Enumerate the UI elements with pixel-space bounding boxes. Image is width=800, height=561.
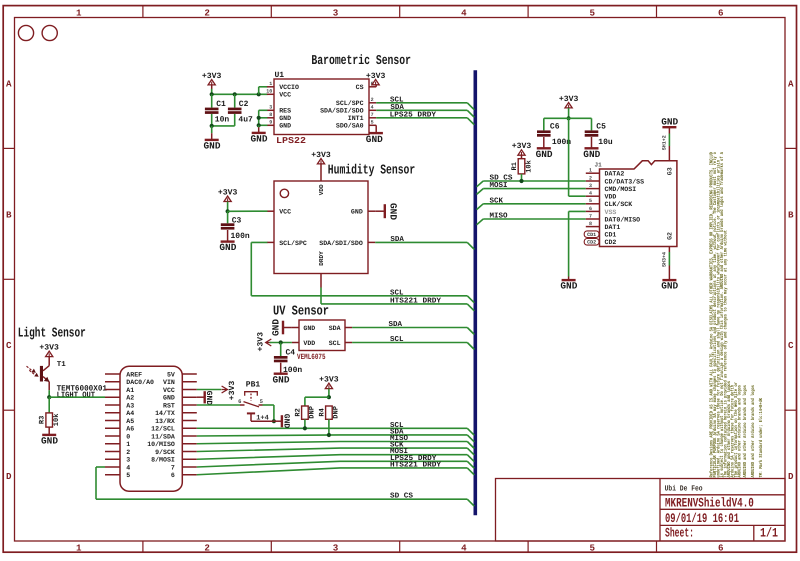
junction <box>519 179 523 183</box>
bus entry LPS25 DRDY <box>467 118 474 125</box>
svg-text:1/1: 1/1 <box>760 526 778 541</box>
bus entry SCL <box>467 428 474 435</box>
svg-text:11/SDA: 11/SDA <box>151 433 175 440</box>
J1 left pin stubs <box>586 172 600 174</box>
svg-text:SDA: SDA <box>390 235 404 244</box>
svg-text:GND: GND <box>303 325 315 332</box>
svg-text:8: 8 <box>269 112 272 118</box>
svg-text:CS: CS <box>356 84 364 91</box>
resistor R4 body <box>326 406 333 419</box>
svg-text:T1: T1 <box>57 361 67 369</box>
wire SD CS <box>483 180 586 182</box>
wire +3V3 down <box>328 389 330 398</box>
svg-text:CMD/MOSI: CMD/MOSI <box>605 186 637 193</box>
wire R2 to SCL <box>304 419 306 428</box>
ground (PB1, rotated) <box>274 420 281 422</box>
capacitor C3 <box>227 211 229 223</box>
wire SDA <box>197 435 468 436</box>
svg-text:6: 6 <box>718 542 724 553</box>
svg-text:HTS221 DRDY: HTS221 DRDY <box>390 296 442 305</box>
svg-text:4: 4 <box>461 542 467 553</box>
capacitor C5 plates <box>585 130 599 133</box>
wire MISO <box>197 442 468 444</box>
capacitor C6 <box>543 118 545 130</box>
svg-text:R4: R4 <box>318 408 326 416</box>
svg-text:R2: R2 <box>294 408 302 416</box>
junction <box>257 116 261 120</box>
svg-text:A4: A4 <box>126 410 134 417</box>
svg-text:SCK: SCK <box>490 196 504 205</box>
svg-text:R1: R1 <box>511 162 519 170</box>
svg-text:SDA/SDI/SDO: SDA/SDI/SDO <box>319 240 363 247</box>
registration hole right <box>42 25 57 40</box>
svg-text:4: 4 <box>371 105 374 111</box>
bus exit SCK <box>477 204 484 210</box>
svg-text:CD1: CD1 <box>587 232 596 238</box>
wire LPS25 DRDY <box>197 461 468 467</box>
svg-text:CD2: CD2 <box>587 240 596 246</box>
svg-text:GND: GND <box>273 374 290 385</box>
svg-text:DRDY: DRDY <box>318 251 325 266</box>
svg-text:2: 2 <box>589 175 592 181</box>
svg-text:1: 1 <box>269 81 272 87</box>
svg-text:VDD: VDD <box>605 194 617 201</box>
wire VCCIO branch <box>258 87 260 95</box>
svg-text:GND: GND <box>583 149 600 160</box>
net flag CD1 <box>584 231 599 238</box>
svg-text:5: 5 <box>590 7 596 18</box>
svg-text:C6: C6 <box>550 123 560 132</box>
svg-text:A5: A5 <box>126 418 134 425</box>
junction <box>257 92 261 96</box>
svg-text:9/SCK: 9/SCK <box>155 449 175 456</box>
wire pullup rail <box>305 396 329 398</box>
wire MISO <box>483 218 586 220</box>
svg-text:+3V3: +3V3 <box>218 189 238 198</box>
svg-text:RES: RES <box>279 108 291 115</box>
svg-text:3: 3 <box>269 105 272 111</box>
junction <box>226 209 230 213</box>
svg-text:GND: GND <box>204 141 221 152</box>
svg-text:MOSI: MOSI <box>490 181 508 190</box>
ground (SD VSS) <box>568 277 570 281</box>
svg-text:4u7: 4u7 <box>238 115 253 124</box>
+3V3 supply <box>325 383 332 388</box>
wire SCL/SPC to bus <box>251 241 267 243</box>
bus entry SCL <box>467 103 474 110</box>
svg-text:GND: GND <box>536 149 553 160</box>
svg-text:GND: GND <box>204 391 213 406</box>
svg-text:ARDUINO and other Arduino bran: ARDUINO and other Arduino brands and log… <box>742 385 748 478</box>
transistor T1 TEMT6000X01 <box>40 366 43 382</box>
svg-text:6: 6 <box>718 7 724 18</box>
op-amp U1 LPS22 box <box>274 79 369 135</box>
svg-text:2: 2 <box>371 97 374 103</box>
svg-text:A: A <box>6 79 12 90</box>
MKR right pin stubs <box>182 373 197 375</box>
svg-text:6: 6 <box>238 398 241 405</box>
wire emitter down <box>48 390 50 397</box>
svg-text:MKRENVShieldV4.0: MKRENVShieldV4.0 <box>665 495 754 510</box>
svg-text:10u: 10u <box>598 138 613 147</box>
bus (navy vertical) <box>473 70 477 515</box>
svg-text:VDD: VDD <box>318 184 325 195</box>
svg-text:10k: 10k <box>52 414 61 427</box>
svg-text:A: A <box>788 79 794 90</box>
svg-text:1: 1 <box>76 7 82 18</box>
bus exit MOSI <box>477 189 484 195</box>
svg-text:C3: C3 <box>232 216 242 225</box>
svg-text:C: C <box>6 340 12 351</box>
svg-text:DAT0/MISO: DAT0/MISO <box>605 216 641 223</box>
capacitor C1 plates <box>205 108 219 111</box>
svg-text:A1: A1 <box>126 387 134 394</box>
PB1 lever <box>244 402 260 407</box>
bus entry SDA (humidity) <box>467 242 474 249</box>
svg-text:GND: GND <box>271 319 282 336</box>
svg-text:GND: GND <box>279 123 291 130</box>
svg-text:C5: C5 <box>596 123 606 132</box>
wire rail to VCC pin 10 <box>212 93 268 95</box>
MKR left pin stubs <box>105 373 120 375</box>
wire +3V3 to VDD <box>270 342 292 344</box>
wire +3V3 stub <box>211 85 213 94</box>
svg-text:+3V3: +3V3 <box>39 344 59 353</box>
wire HTS221 DRDY <box>197 468 468 475</box>
junction <box>233 92 237 96</box>
capacitor C3 plates <box>221 223 235 226</box>
bus entry MISO <box>467 442 474 449</box>
wire LPS25 DRDY <box>376 117 467 119</box>
light arrows <box>27 366 35 374</box>
capacitor C4 <box>280 343 282 357</box>
svg-text:C1: C1 <box>216 100 226 109</box>
svg-text:8: 8 <box>589 221 592 227</box>
wire +3V3 to rail <box>211 89 213 95</box>
junction <box>257 123 261 127</box>
wire LIGHT OUT to A2 <box>49 396 105 398</box>
wire PB1 pin5 to 1+4 <box>263 404 274 406</box>
junction <box>210 124 214 128</box>
svg-text:7: 7 <box>171 464 175 471</box>
wire +3V3 to SD VDD <box>568 118 570 196</box>
svg-text:1: 1 <box>76 542 82 553</box>
+3V3 supply <box>46 351 53 356</box>
svg-text:LPS25 DRDY: LPS25 DRDY <box>390 110 437 119</box>
svg-text:SDO/SA0: SDO/SA0 <box>336 123 364 130</box>
bus entry SDA <box>467 110 474 117</box>
svg-text:MISO: MISO <box>490 212 509 221</box>
ground (U3 GND pin, rotated) <box>282 321 284 335</box>
connector J1 SD card socket outline <box>600 161 677 247</box>
capacitor C1 <box>211 94 213 107</box>
svg-text:RST: RST <box>163 402 175 409</box>
IC U3 VEML6075 box <box>299 320 345 351</box>
svg-text:+3V3: +3V3 <box>512 142 532 151</box>
wire MOSI <box>197 455 468 460</box>
svg-text:10/MISO: 10/MISO <box>147 441 175 448</box>
svg-text:GND: GND <box>163 395 175 402</box>
svg-text:AREF: AREF <box>126 371 142 378</box>
registration hole left <box>18 25 33 40</box>
svg-text:+3V3: +3V3 <box>256 332 265 352</box>
bus entry LPS25 DRDY <box>467 461 474 468</box>
wire VCC <box>197 389 222 391</box>
svg-text:SDA: SDA <box>329 325 341 332</box>
svg-text:UV Sensor: UV Sensor <box>273 304 329 319</box>
svg-text:GND: GND <box>281 414 290 429</box>
capacitor C5 <box>591 118 593 130</box>
svg-text:10k: 10k <box>525 160 534 173</box>
svg-text:A3: A3 <box>126 402 134 409</box>
svg-text:CLK/SCK: CLK/SCK <box>605 201 633 208</box>
U3 pin stubs <box>292 327 299 329</box>
svg-text:SDA: SDA <box>389 320 403 329</box>
svg-text:9: 9 <box>269 120 272 126</box>
svg-text:SH1+2: SH1+2 <box>662 135 668 150</box>
svg-text:5: 5 <box>126 472 130 479</box>
U2 pin-1 circle <box>280 189 288 197</box>
svg-text:+3V3: +3V3 <box>559 95 579 104</box>
svg-text:CD2: CD2 <box>605 239 617 246</box>
svg-text:+3V3: +3V3 <box>311 151 331 160</box>
PB1 lower contact 1+4 <box>247 412 255 414</box>
svg-text:B: B <box>788 209 794 220</box>
wire pins 3,8,9 to ground <box>259 109 268 111</box>
wire DRDY to bus <box>320 274 322 288</box>
ground (C3) <box>227 230 229 242</box>
capacitor C2 plates <box>228 108 242 111</box>
svg-text:VCCIO: VCCIO <box>279 84 299 91</box>
svg-text:GND: GND <box>366 134 383 145</box>
ground (humidity GND pin, rotated) <box>375 210 384 212</box>
ground (MKR GND pin, rotated) <box>197 396 204 398</box>
svg-text:+3V3: +3V3 <box>366 72 386 81</box>
svg-text:D: D <box>788 471 794 482</box>
svg-text:GND: GND <box>41 436 58 447</box>
svg-text:GND: GND <box>387 203 398 220</box>
svg-text:HTS221 DRDY: HTS221 DRDY <box>390 460 442 469</box>
svg-text:5: 5 <box>371 120 374 126</box>
svg-text:14/TX: 14/TX <box>155 410 175 417</box>
svg-text:Humidity Sensor: Humidity Sensor <box>328 164 415 179</box>
+3V3 supply <box>224 196 231 201</box>
svg-text:GND: GND <box>661 281 678 292</box>
svg-text:DAC0/A0: DAC0/A0 <box>126 379 154 386</box>
ground (G2) <box>668 266 670 281</box>
svg-text:INT1: INT1 <box>348 115 364 122</box>
svg-text:VEML6075: VEML6075 <box>297 353 326 362</box>
svg-text:LPS22: LPS22 <box>276 136 306 146</box>
+3V3 supply <box>565 103 572 108</box>
wire to VCC pin <box>228 210 268 212</box>
svg-text:GND: GND <box>279 115 291 122</box>
svg-text:SCL: SCL <box>329 340 341 347</box>
wire +3V3 to VCC node <box>227 202 229 212</box>
bus exit SD CS <box>477 181 484 187</box>
resistor R2 body <box>302 406 309 419</box>
svg-text:GND: GND <box>351 209 363 216</box>
svg-text:G3: G3 <box>667 167 674 175</box>
wire R4 to SDA <box>328 419 330 435</box>
svg-text:LIGHT OUT: LIGHT OUT <box>57 391 96 400</box>
svg-text:100n: 100n <box>231 232 250 241</box>
bus entry SCL (UV) <box>467 343 474 350</box>
svg-text:4: 4 <box>589 191 592 197</box>
svg-text:VSS: VSS <box>605 209 617 216</box>
ground (SDO/SA0) <box>375 125 377 133</box>
svg-text:B: B <box>6 209 12 220</box>
svg-text:SH3+4: SH3+4 <box>662 252 668 267</box>
svg-text:1: 1 <box>126 441 130 448</box>
svg-text:R3: R3 <box>39 416 47 424</box>
junction <box>272 419 276 423</box>
svg-text:SD CS: SD CS <box>390 492 413 501</box>
wire SCK <box>197 448 468 451</box>
svg-text:VCC: VCC <box>163 387 175 394</box>
PB1 contact stubs <box>240 404 245 406</box>
wire SCL <box>376 102 467 104</box>
svg-text:SCL: SCL <box>390 335 404 344</box>
bus entry HTS221 DRDY <box>467 304 474 311</box>
svg-text:GND: GND <box>219 242 236 253</box>
capacitor C4 plates <box>274 356 288 359</box>
wire C2 to C1 gnd node <box>212 125 235 127</box>
+3V3 supply (R1) <box>518 150 525 155</box>
ground (C5) <box>591 137 593 148</box>
svg-text:DAT1: DAT1 <box>605 224 621 231</box>
svg-text:GND: GND <box>560 281 577 292</box>
capacitor C6 plates <box>537 130 551 133</box>
svg-text:DATA2: DATA2 <box>605 171 625 178</box>
svg-text:Barometric Sensor: Barometric Sensor <box>311 54 411 69</box>
connector MKR (main board header) <box>120 366 182 491</box>
svg-text:VIN: VIN <box>163 379 175 386</box>
ground (R3) <box>48 427 50 435</box>
svg-text:SCL: SCL <box>390 288 404 297</box>
+3V3 supply <box>317 159 324 164</box>
svg-text:3: 3 <box>333 7 339 18</box>
svg-text:C4: C4 <box>286 348 296 357</box>
junction <box>327 395 331 399</box>
svg-text:CD/DAT3/SS: CD/DAT3/SS <box>605 178 645 185</box>
svg-text:5: 5 <box>589 198 592 204</box>
bus entry HTS221 DRDY <box>467 468 474 475</box>
svg-text:2: 2 <box>126 449 130 456</box>
svg-text:3: 3 <box>126 457 130 464</box>
svg-text:PB1: PB1 <box>246 381 261 390</box>
wire R1 to SD CS <box>521 174 523 181</box>
+3V3 supply <box>372 79 379 84</box>
svg-text:8/MOSI: 8/MOSI <box>151 457 175 464</box>
svg-text:G2: G2 <box>667 232 674 240</box>
bus entry SD CS <box>467 499 474 506</box>
svg-text:+3V3: +3V3 <box>319 376 339 385</box>
svg-text:U1: U1 <box>275 71 285 80</box>
svg-text:09/01/19 16:01: 09/01/19 16:01 <box>665 511 739 526</box>
svg-text:4: 4 <box>461 7 467 18</box>
svg-text:6: 6 <box>589 206 592 212</box>
wire SCL <box>197 427 468 429</box>
resistor R3 body <box>46 413 53 427</box>
wire SDA <box>352 327 467 329</box>
svg-text:GND: GND <box>661 116 678 127</box>
svg-text:10: 10 <box>266 89 272 95</box>
svg-text:SCL/SPC: SCL/SPC <box>279 240 307 247</box>
bus entry SDA (UV) <box>467 328 474 335</box>
svg-text:C2: C2 <box>239 100 249 109</box>
svg-text:4: 4 <box>126 464 130 471</box>
resistor R1 body <box>518 159 525 174</box>
wire SDA <box>375 241 467 243</box>
junction <box>303 426 307 430</box>
svg-text:10n: 10n <box>215 115 230 124</box>
svg-text:+3V3: +3V3 <box>202 72 222 81</box>
+3V3 supply (U3, arrow left) <box>266 339 272 346</box>
wire SCK <box>483 203 586 205</box>
U1 right pin stubs <box>369 86 376 88</box>
wire G2 shield <box>668 252 670 266</box>
svg-text:13/RX: 13/RX <box>155 418 175 425</box>
frame column ticks <box>142 6 144 18</box>
svg-text:12/SCL: 12/SCL <box>151 426 175 433</box>
wire C1 bottom <box>211 114 213 126</box>
svg-text:A6: A6 <box>126 426 134 433</box>
svg-text:TM: Mark Standard under; Elc:1: TM: Mark Standard under; Elc:14+B+dK <box>758 398 764 478</box>
wire MOSI <box>483 188 586 190</box>
svg-text:ARDUINO and other Arduino bran: ARDUINO and other Arduino brands and log… <box>737 385 743 478</box>
svg-text:5: 5 <box>590 542 596 553</box>
svg-text:6: 6 <box>171 472 175 479</box>
junction <box>47 395 51 399</box>
svg-text:Sheet:: Sheet: <box>665 526 694 541</box>
junction <box>567 116 571 120</box>
svg-text:SCL/SPC: SCL/SPC <box>336 100 364 107</box>
svg-text:D: D <box>6 471 12 482</box>
svg-text:VDD: VDD <box>303 340 315 347</box>
wire SDA <box>376 109 467 111</box>
U2 left pin stubs <box>267 210 274 212</box>
PB1 actuator bracket <box>245 392 258 396</box>
svg-text:0: 0 <box>126 433 130 440</box>
wire RST to PB1 <box>197 404 240 406</box>
title block <box>496 479 786 542</box>
wire SD VSS to ground <box>569 210 586 212</box>
wire to ground <box>211 126 213 133</box>
svg-text:GND: GND <box>251 134 268 145</box>
ground (C1 C2) <box>211 133 213 140</box>
U2 right pin stubs <box>368 210 375 212</box>
svg-text:3: 3 <box>333 542 339 553</box>
svg-text:Ubi De Feo: Ubi De Feo <box>665 484 703 493</box>
svg-text:7: 7 <box>371 112 374 118</box>
wire G3 shield <box>668 134 670 147</box>
resistor R2 <box>304 397 306 406</box>
svg-text:+3V3: +3V3 <box>228 381 237 401</box>
ground (U1 pins) <box>258 127 260 133</box>
bus entry SDA <box>467 435 474 442</box>
ground (G3, bar above) <box>668 127 670 133</box>
bus entry SCK <box>467 448 474 455</box>
bus entry MOSI <box>467 455 474 462</box>
wire +3V3 down <box>568 108 570 118</box>
+3V3 supply (CS pin) <box>375 85 377 87</box>
svg-text:2: 2 <box>204 542 210 553</box>
bus exit MISO <box>477 219 484 225</box>
svg-text:Light Sensor: Light Sensor <box>18 327 86 342</box>
svg-text:SDA/SDI/SDO: SDA/SDI/SDO <box>320 108 364 115</box>
svg-text:J1: J1 <box>595 162 603 169</box>
